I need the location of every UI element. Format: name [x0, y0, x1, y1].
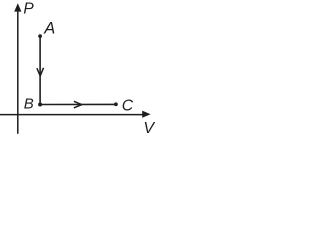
right arrow on segment BC: [74, 101, 82, 108]
point C: [114, 102, 118, 106]
wire segment A to B: [39, 36, 41, 104]
V axis arrowhead: [142, 111, 150, 118]
svg-text:A: A: [43, 20, 55, 38]
svg-text:P: P: [23, 1, 34, 18]
svg-text:V: V: [143, 120, 155, 137]
svg-text:C: C: [122, 98, 134, 115]
svg-text:B: B: [24, 95, 34, 112]
down arrow on segment AB: [37, 68, 44, 76]
V axis (horizontal axis line): [0, 114, 145, 116]
wire segment B to C: [40, 103, 116, 105]
point A: [38, 34, 42, 38]
P axis arrowhead: [14, 3, 21, 11]
P axis (vertical axis line): [17, 8, 19, 134]
point B: [38, 103, 42, 107]
